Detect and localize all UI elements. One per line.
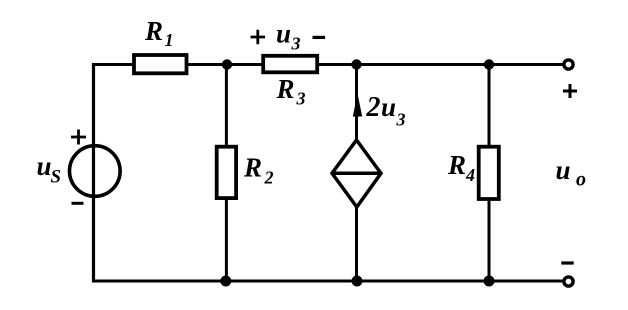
wire: dependent-source branch vertical bbox=[355, 65, 358, 282]
svg-text:R: R bbox=[243, 153, 262, 183]
resistor R2 body bbox=[217, 147, 236, 198]
voltage source minus mark bbox=[72, 202, 84, 205]
junction dot bottom R4 bbox=[484, 276, 495, 287]
output terminal top bbox=[564, 60, 573, 69]
svg-text:o: o bbox=[576, 169, 586, 191]
wire: left vertical branch through source bbox=[92, 63, 95, 283]
voltage source plus mark bbox=[71, 130, 86, 145]
wire: R4 branch vertical bbox=[488, 65, 491, 282]
resistor R3 body bbox=[263, 56, 317, 73]
svg-text:u: u bbox=[556, 155, 571, 185]
junction dot top dependent source bbox=[351, 59, 361, 69]
voltage source u_S circle bbox=[70, 146, 121, 197]
junction dot top R4 bbox=[484, 59, 494, 69]
svg-text:3: 3 bbox=[296, 89, 306, 109]
dependent current source diamond bbox=[332, 140, 381, 207]
svg-text:u: u bbox=[276, 19, 291, 49]
svg-text:3: 3 bbox=[396, 110, 406, 130]
svg-text:R: R bbox=[144, 16, 163, 46]
svg-text:u: u bbox=[381, 92, 396, 122]
svg-text:3: 3 bbox=[291, 34, 301, 54]
junction dot bottom dependent source bbox=[352, 276, 363, 287]
junction dot bottom R2 bbox=[220, 276, 231, 287]
wire: top rail, R1 to R3 bbox=[184, 63, 265, 66]
svg-text:R: R bbox=[276, 74, 295, 104]
svg-text:R: R bbox=[447, 150, 466, 180]
svg-text:S: S bbox=[51, 167, 62, 188]
wire: R2 branch vertical bbox=[225, 65, 228, 282]
output plus mark bbox=[563, 84, 577, 98]
junction dot top R2 bbox=[222, 59, 232, 69]
resistor R4 body bbox=[479, 147, 499, 199]
polarity plus for u3 bbox=[251, 30, 266, 45]
svg-text:4: 4 bbox=[465, 165, 475, 185]
wire: top rail, source corner to R1 bbox=[94, 63, 138, 66]
wire: bottom rail bbox=[94, 280, 565, 283]
output terminal bottom bbox=[564, 277, 573, 286]
polarity minus for u3 bbox=[313, 36, 326, 39]
svg-text:2: 2 bbox=[264, 168, 274, 188]
svg-text:1: 1 bbox=[165, 30, 174, 50]
resistor R1 body bbox=[134, 55, 187, 73]
output minus mark bbox=[561, 261, 573, 264]
dependent source current arrow bbox=[353, 96, 361, 116]
svg-text:2: 2 bbox=[366, 92, 381, 123]
dependent source middle bar bbox=[332, 172, 381, 176]
svg-text:u: u bbox=[37, 151, 52, 181]
wire: top rail, R3 to output terminal bbox=[315, 63, 564, 66]
